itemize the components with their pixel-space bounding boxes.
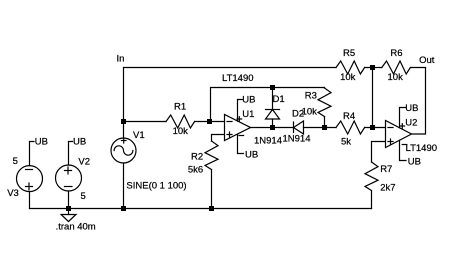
svg-text:10k: 10k [173,126,189,137]
svg-text:R2: R2 [191,151,203,162]
svg-text:.tran 40m: .tran 40m [56,222,96,233]
svg-text:U1: U1 [242,109,254,120]
svg-text:5: 5 [13,156,18,167]
svg-text:UB: UB [35,137,48,148]
svg-text:SINE(0 1 100): SINE(0 1 100) [126,181,186,192]
svg-text:5k6: 5k6 [188,164,203,175]
svg-text:R5: R5 [343,48,355,59]
svg-text:V3: V3 [7,188,19,199]
svg-text:R3: R3 [305,91,317,102]
svg-text:2k7: 2k7 [380,183,395,194]
svg-text:R6: R6 [390,48,402,59]
svg-text:LT1490: LT1490 [406,143,438,154]
svg-text:UB: UB [245,150,258,161]
svg-text:5k: 5k [341,137,351,148]
svg-text:LT1490: LT1490 [222,73,254,84]
svg-text:R7: R7 [380,164,392,175]
svg-text:V2: V2 [78,157,90,168]
svg-text:10k: 10k [388,72,404,83]
svg-text:5: 5 [81,191,86,202]
svg-text:R1: R1 [174,102,186,113]
svg-text:Out: Out [419,55,435,66]
svg-text:D1: D1 [273,94,285,105]
svg-text:1N914: 1N914 [254,136,282,147]
svg-text:R4: R4 [343,111,355,122]
svg-text:UB: UB [73,137,86,148]
svg-text:UB: UB [242,95,255,106]
svg-text:10k: 10k [340,72,356,83]
svg-text:UB: UB [408,156,421,167]
svg-text:UB: UB [405,103,418,114]
svg-text:D2: D2 [292,109,304,120]
svg-text:In: In [117,54,125,65]
svg-text:V1: V1 [133,130,145,141]
svg-text:U2: U2 [405,117,417,128]
svg-text:1N914: 1N914 [283,134,311,145]
